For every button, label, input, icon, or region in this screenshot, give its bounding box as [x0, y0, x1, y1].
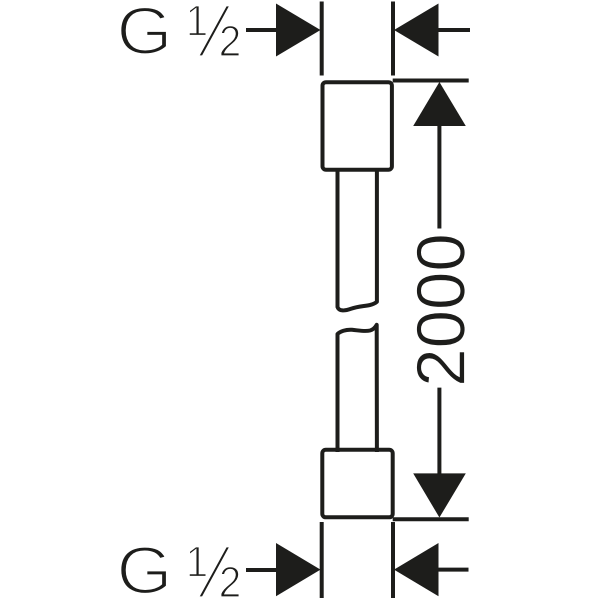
svg-text:G: G [117, 0, 173, 69]
svg-text:½: ½ [187, 0, 241, 73]
svg-text:2000: 2000 [402, 233, 479, 387]
svg-text:½: ½ [187, 530, 241, 600]
svg-text:G: G [117, 535, 173, 600]
